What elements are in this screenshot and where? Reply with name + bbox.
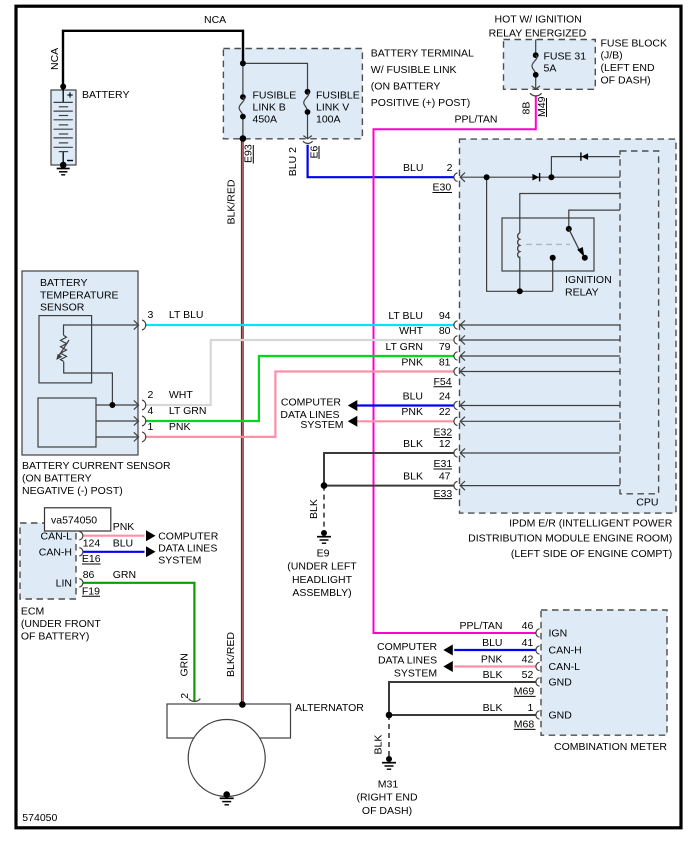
svg-text:BLK: BLK — [308, 499, 320, 519]
connector E6 arc below fusible box — [303, 141, 313, 143]
svg-text:FUSE 31: FUSE 31 — [544, 51, 587, 63]
ignition relay box — [502, 218, 594, 271]
svg-text:PNK: PNK — [169, 421, 191, 433]
fuse 31 symbol — [533, 52, 539, 58]
IPDM internal row 94 — [461, 324, 620, 326]
svg-text:BLK/RED: BLK/RED — [225, 632, 237, 677]
svg-text:450A: 450A — [253, 113, 278, 125]
battery plate long/short bars — [54, 102, 73, 151]
arrow down fuse 31 — [532, 86, 540, 89]
IPDM internal row 24 — [461, 405, 620, 407]
arrow ECM CAN-L to computer data lines — [146, 530, 156, 541]
svg-text:LT BLU: LT BLU — [388, 310, 423, 322]
IPDM diode branch upper line — [551, 157, 620, 178]
svg-text:BATTERY CURRENT SENSOR: BATTERY CURRENT SENSOR — [22, 460, 171, 472]
arrow ECM CAN-H to computer data lines — [146, 546, 156, 557]
svg-text:ASSEMBLY): ASSEMBLY) — [292, 587, 351, 599]
svg-text:M69: M69 — [514, 686, 535, 698]
node BLK/RED at alternator — [239, 701, 246, 708]
wire BLU 24 computer data lines to IPDM — [356, 404, 455, 406]
svg-text:574050: 574050 — [22, 812, 57, 824]
svg-text:42: 42 — [522, 653, 534, 665]
svg-text:PNK: PNK — [113, 521, 135, 533]
svg-text:M31: M31 — [378, 779, 399, 791]
IPDM coil bottom lead — [519, 257, 521, 292]
sensor pin4 internal line — [96, 420, 138, 422]
arrow down link V — [303, 136, 311, 139]
wire BLK 47 IPDM to E9 ground branch — [324, 485, 455, 487]
svg-text:PNK: PNK — [401, 356, 423, 368]
svg-text:LT BLU: LT BLU — [169, 309, 204, 321]
IPDM internal row 22 — [461, 420, 620, 422]
svg-text:E16: E16 — [82, 553, 101, 565]
arrow combination meter CAN-H — [443, 645, 453, 656]
svg-text:CAN-H: CAN-H — [39, 547, 72, 559]
node link B to BLK/RED junction — [240, 135, 247, 142]
wire PNK 42 combination meter CAN-L — [454, 665, 536, 667]
IPDM internal row 80 — [461, 339, 620, 341]
svg-text:BATTERY: BATTERY — [82, 89, 129, 101]
combination meter pin arcs — [536, 629, 540, 719]
svg-text:94: 94 — [439, 310, 451, 322]
wire link V bottom with arrow — [307, 112, 309, 139]
svg-text:OF DASH): OF DASH) — [362, 805, 412, 817]
IPDM internal row 47 — [461, 485, 620, 487]
svg-text:1: 1 — [527, 702, 533, 714]
svg-text:SENSOR: SENSOR — [40, 302, 85, 314]
diode D2 — [581, 153, 588, 160]
svg-text:SYSTEM: SYSTEM — [158, 555, 201, 567]
sensor thermistor inner box — [39, 316, 92, 383]
battery temperature sensor outer box — [22, 271, 138, 455]
svg-text:NCA: NCA — [49, 48, 61, 70]
wire LT BLU sensor pin3 to IPDM — [145, 324, 454, 326]
combination meter box — [541, 610, 667, 735]
node E9 ground top — [321, 530, 327, 536]
arrow combination meter CAN-L — [443, 661, 453, 672]
svg-text:COMPUTER: COMPUTER — [377, 641, 438, 653]
node M31 ground top — [386, 756, 392, 762]
svg-text:BLU: BLU — [403, 390, 423, 402]
svg-text:FUSIBLE: FUSIBLE — [316, 90, 360, 102]
svg-text:80: 80 — [439, 325, 451, 337]
arrow chevron E30 — [460, 173, 465, 182]
IPDM internal row 12 — [461, 452, 620, 454]
fusible link box (battery terminal w/ fusible link) — [223, 49, 362, 139]
node fusible feed junction — [240, 60, 246, 66]
svg-text:BLU: BLU — [113, 538, 133, 550]
svg-text:52: 52 — [522, 669, 534, 681]
svg-text:4: 4 — [148, 405, 154, 417]
svg-text:OF DASH): OF DASH) — [601, 74, 651, 86]
svg-text:1: 1 — [148, 421, 154, 433]
svg-text:12: 12 — [439, 438, 451, 450]
IPDM switch line from CPU — [569, 210, 620, 229]
svg-text:(UNDER FRONT: (UNDER FRONT — [21, 618, 101, 630]
node diode junction — [548, 174, 554, 180]
IPDM internal row 81 — [461, 371, 620, 373]
relay coil — [518, 233, 520, 258]
sensor current inner box — [38, 398, 96, 447]
alternator circle — [188, 720, 265, 797]
svg-text:41: 41 — [522, 637, 534, 649]
wire PNK sensor pin1 to IPDM — [145, 372, 455, 437]
CPU box — [620, 151, 659, 494]
svg-text:NCA: NCA — [204, 14, 226, 26]
svg-text:WHT: WHT — [399, 325, 423, 337]
node sensor pin2 junction — [109, 402, 115, 408]
svg-text:TEMPERATURE: TEMPERATURE — [40, 289, 119, 301]
alternator box — [167, 704, 291, 738]
svg-text:22: 22 — [439, 406, 451, 418]
wire GRN ECM LIN to alternator — [83, 583, 194, 701]
battery minus sign — [67, 160, 73, 162]
wire PNK ECM CAN-L — [83, 535, 145, 537]
svg-text:GND: GND — [549, 677, 573, 689]
node M68 junction — [386, 712, 393, 719]
svg-text:(J/B): (J/B) — [601, 50, 623, 62]
svg-text:2: 2 — [447, 162, 453, 174]
svg-text:IGN: IGN — [549, 628, 568, 640]
wire PPL/TAN fuse to combination meter IGN — [374, 96, 537, 633]
svg-text:47: 47 — [439, 470, 451, 482]
svg-text:2: 2 — [179, 693, 191, 699]
svg-text:124: 124 — [83, 538, 101, 550]
svg-text:E9: E9 — [317, 548, 330, 560]
relay switch arm — [569, 229, 580, 251]
relay coil-switch dashed link — [526, 243, 570, 245]
svg-text:CAN-H: CAN-H — [549, 645, 582, 657]
battery internal center lead bottom — [62, 152, 64, 165]
IPDM switch common lead — [552, 258, 554, 292]
svg-text:IPDM E/R (INTELLIGENT POWER: IPDM E/R (INTELLIGENT POWER — [509, 517, 673, 529]
svg-text:E32: E32 — [434, 427, 453, 439]
wire BLU 41 combination meter CAN-H — [454, 649, 536, 651]
node switch contact — [582, 255, 588, 261]
sensor pin3 internal line — [64, 325, 139, 335]
svg-text:79: 79 — [439, 341, 451, 353]
wire WHT sensor pin2 to IPDM — [145, 340, 455, 405]
svg-text:WHT: WHT — [169, 389, 193, 401]
node alternator ground — [223, 791, 230, 798]
node BLK 47 junction — [321, 482, 328, 489]
svg-text:RELAY: RELAY — [565, 286, 599, 298]
svg-text:5A: 5A — [544, 63, 557, 75]
svg-text:ECM: ECM — [21, 605, 44, 617]
ECM box — [20, 523, 76, 599]
svg-text:OF BATTERY): OF BATTERY) — [21, 631, 89, 643]
svg-text:BLK: BLK — [483, 702, 503, 714]
svg-text:HEADLIGHT: HEADLIGHT — [292, 574, 353, 586]
svg-text:FUSIBLE: FUSIBLE — [253, 90, 297, 102]
thermistor zigzag — [61, 335, 67, 361]
svg-text:E93: E93 — [243, 144, 255, 163]
svg-text:COMBINATION METER: COMBINATION METER — [554, 741, 667, 753]
wire PNK 22 computer data lines to IPDM — [356, 420, 455, 422]
node switch pivot — [566, 226, 572, 232]
svg-text:81: 81 — [439, 356, 451, 368]
ground E9 — [317, 537, 331, 544]
battery internal center lead top — [62, 90, 64, 102]
svg-text:LINK V: LINK V — [316, 102, 349, 114]
fusible link V symbol — [305, 89, 311, 95]
svg-text:W/ FUSIBLE LINK: W/ FUSIBLE LINK — [371, 64, 457, 76]
svg-text:BLK: BLK — [403, 470, 423, 482]
svg-text:86: 86 — [83, 569, 95, 581]
connector arcs and chevrons at IPDM rows — [454, 320, 465, 490]
wire link B bottom — [242, 117, 244, 139]
IPDM coil line from CPU — [520, 194, 620, 234]
connector E30 arc at IPDM edge — [454, 173, 458, 181]
svg-text:CAN-L: CAN-L — [549, 661, 581, 673]
svg-text:BLK/RED: BLK/RED — [226, 179, 238, 224]
wire fuse 31 top — [535, 40, 537, 56]
IPDM internal row 79 — [461, 355, 620, 357]
svg-text:LINK B: LINK B — [253, 102, 286, 114]
svg-text:NEGATIVE (-) POST): NEGATIVE (-) POST) — [22, 485, 123, 497]
svg-text:(RIGHT END: (RIGHT END — [356, 792, 417, 804]
wire BLK 52 combination meter GND M69 — [389, 682, 536, 715]
node coil bottom junction — [517, 288, 523, 294]
IPDM relay bottom bus — [487, 177, 553, 291]
svg-text:(UNDER LEFT: (UNDER LEFT — [287, 561, 357, 573]
node relay common — [550, 255, 556, 261]
IPDM relay main line E30 to CPU — [461, 176, 620, 178]
connector arc alternator GRN pin — [189, 699, 201, 702]
wire LT GRN sensor pin4 to IPDM — [145, 356, 455, 421]
svg-text:(ON BATTERY: (ON BATTERY — [371, 81, 441, 93]
svg-text:F19: F19 — [82, 585, 100, 597]
svg-text:(LEFT SIDE OF ENGINE COMPT): (LEFT SIDE OF ENGINE COMPT) — [511, 548, 672, 560]
wire BLK/RED red strand — [242, 139, 244, 705]
svg-text:BLU: BLU — [403, 162, 423, 174]
svg-text:M68: M68 — [514, 719, 535, 731]
wire BLU ECM CAN-H — [83, 551, 145, 553]
svg-text:8B: 8B — [521, 102, 533, 115]
svg-text:HOT W/ IGNITION: HOT W/ IGNITION — [495, 14, 582, 26]
ground M31 — [382, 763, 396, 770]
node battery positive — [60, 84, 66, 90]
svg-text:CAN-L: CAN-L — [40, 531, 72, 543]
wire BLK dashed to M31 ground — [388, 715, 390, 757]
wire BLK/RED black strand — [241, 139, 243, 705]
svg-text:DISTRIBUTION MODULE ENGINE ROO: DISTRIBUTION MODULE ENGINE ROOM) — [468, 533, 672, 545]
svg-text:E31: E31 — [434, 458, 453, 470]
svg-text:24: 24 — [439, 390, 451, 402]
wire BLK dashed to E9 ground — [323, 486, 325, 531]
svg-text:46: 46 — [522, 620, 534, 632]
wire inside fusible box: link B feed — [242, 63, 244, 97]
svg-text:POSITIVE (+) POST): POSITIVE (+) POST) — [371, 97, 470, 109]
svg-text:CPU: CPU — [636, 497, 658, 509]
diode D1 — [532, 174, 539, 181]
svg-text:2: 2 — [148, 389, 154, 401]
svg-text:(ON BATTERY: (ON BATTERY — [22, 473, 92, 485]
node battery negative — [60, 162, 67, 169]
ground battery — [57, 169, 70, 175]
ECM pin arcs — [79, 532, 83, 588]
svg-text:PNK: PNK — [401, 406, 423, 418]
fusible link B symbol — [240, 94, 246, 100]
wire BLK 12 IPDM to E9 ground branch — [324, 453, 455, 486]
svg-text:COMPUTER: COMPUTER — [158, 531, 219, 543]
va574050 overlay box — [45, 508, 111, 531]
svg-text:GND: GND — [549, 710, 573, 722]
node relay feed left — [484, 174, 490, 180]
svg-text:BLU 2: BLU 2 — [287, 147, 299, 176]
wire fuse 31 bottom with arrow — [535, 75, 537, 89]
svg-text:RELAY ENERGIZED: RELAY ENERGIZED — [489, 27, 587, 39]
svg-text:FUSE BLOCK: FUSE BLOCK — [601, 37, 668, 49]
svg-text:SYSTEM: SYSTEM — [394, 668, 437, 680]
svg-text:GRN: GRN — [113, 569, 136, 581]
svg-text:BATTERY TERMINAL: BATTERY TERMINAL — [371, 47, 474, 59]
svg-text:BLU: BLU — [482, 637, 502, 649]
wire BLU 2 fusible link V to IPDM E30 — [308, 145, 455, 177]
svg-text:DATA LINES: DATA LINES — [378, 655, 437, 667]
battery plus sign — [67, 92, 72, 97]
svg-text:COMPUTER: COMPUTER — [281, 397, 342, 409]
svg-text:LIN: LIN — [56, 577, 72, 589]
svg-text:BATTERY: BATTERY — [40, 277, 87, 289]
svg-text:100A: 100A — [316, 113, 341, 125]
svg-text:PPL/TAN: PPL/TAN — [460, 620, 503, 632]
battery symbol box — [51, 90, 76, 165]
wire branch to link V — [243, 63, 308, 91]
sensor pin connector arcs and chevrons — [134, 320, 146, 442]
thermistor arrow — [59, 340, 69, 356]
svg-text:va574050: va574050 — [51, 515, 97, 527]
wire BLK 1 combination meter GND M68 — [389, 714, 536, 716]
svg-text:BLK: BLK — [373, 735, 385, 755]
sensor thermistor bottom lead — [64, 362, 113, 406]
svg-text:IGNITION: IGNITION — [565, 274, 612, 286]
sensor pin2 internal line — [96, 404, 138, 406]
svg-text:SYSTEM: SYSTEM — [300, 419, 343, 431]
svg-text:LT GRN: LT GRN — [385, 341, 423, 353]
sensor pin1 internal line — [96, 436, 138, 438]
svg-text:BLK: BLK — [483, 669, 503, 681]
svg-text:F54: F54 — [434, 376, 452, 388]
svg-text:GRN: GRN — [179, 653, 191, 676]
fuse block (J/B) box — [504, 40, 596, 90]
svg-text:PPL/TAN: PPL/TAN — [455, 114, 498, 126]
svg-text:(LEFT END: (LEFT END — [601, 62, 655, 74]
svg-text:DATA LINES: DATA LINES — [158, 543, 217, 555]
IPDM E/R box — [460, 139, 677, 513]
wire NCA battery to fusible link box — [63, 31, 243, 90]
arrow computer data lines PNK 22 — [348, 416, 358, 427]
svg-text:E30: E30 — [433, 182, 452, 194]
svg-text:PNK: PNK — [481, 653, 503, 665]
svg-text:LT GRN: LT GRN — [169, 405, 207, 417]
connector M49 arc below fuse block — [530, 93, 542, 96]
svg-text:ALTERNATOR: ALTERNATOR — [295, 702, 364, 714]
svg-text:3: 3 — [148, 309, 154, 321]
svg-text:E33: E33 — [434, 488, 453, 500]
arrow computer data lines BLU 24 — [348, 400, 358, 411]
svg-text:BLK: BLK — [403, 438, 423, 450]
ground alternator — [220, 798, 234, 805]
